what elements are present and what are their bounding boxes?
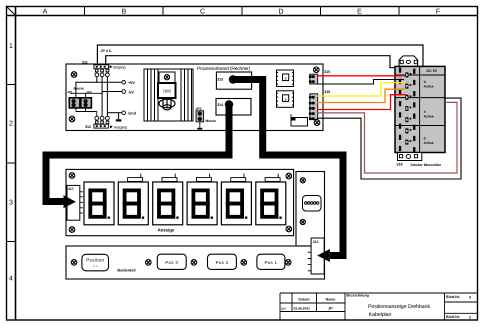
svg-text:Pos 1: Pos 1 [265,260,278,265]
mounting hole top-left [71,72,77,78]
button Pos 2 [208,254,237,269]
svg-text:316: 316 [324,90,330,94]
connector 318 pins column 2 [405,72,411,144]
svg-text:Positionsanzeige Drehbank: Positionsanzeige Drehbank [368,304,430,310]
svg-text:2: 2 [469,315,471,319]
7-segment display DIS6 [256,182,286,225]
wire 311 pin3 to connector 318 body [106,56,395,68]
button Pos 1 [257,254,285,269]
terminal -5V [122,90,126,94]
mounting hole ctrl 3 [191,260,197,266]
7-segment display DIS3 [153,182,183,225]
svg-text:Masse: Masse [74,86,84,90]
svg-text:JP3: JP3 [196,107,202,111]
mounting hole display BL [69,227,75,233]
mounting hole ctrl 1 [71,260,77,266]
svg-text:5: 5 [285,97,287,101]
mounting hole display TL [69,173,75,179]
mounting hole side bottom [300,219,305,224]
connector 318 pins column 3 [413,69,415,153]
connector 318 bottom tab [398,153,422,161]
svg-text:Bezeichnung: Bezeichnung [347,294,369,298]
wire red 315 to 318 [317,75,405,77]
svg-text:318: 318 [397,163,403,167]
svg-text:Achse: Achse [424,141,434,145]
svg-text:Achse: Achse [424,84,434,88]
header 313 (to Bedienteil) [216,72,251,89]
svg-text:Achse: Achse [424,114,434,118]
mounting hole side top [300,178,305,183]
IC U3 [277,91,294,108]
svg-text:4: 4 [9,276,13,283]
mounting hole display TR [286,173,292,179]
connector 312 (Ausgang) [94,116,109,128]
svg-text:3: 3 [9,200,13,207]
svg-text:-5V: -5V [128,90,134,94]
connector 315 [310,74,318,84]
connector 318 body [395,66,445,152]
wire Masse branch to JP1 [76,82,98,98]
wire black 316 loop to 318 right [317,98,461,179]
control board (Bedienteil) outline [66,246,325,279]
svg-text:315: 315 [324,70,330,74]
svg-text:317: 317 [68,187,74,191]
wire 312 pin1 drop [96,112,98,117]
svg-text:Pos 3: Pos 3 [165,260,178,265]
connector 318 pins column 1 [399,68,401,152]
wire black 315 to 318 [317,80,404,85]
mounting hole ctrl 4 [241,260,247,266]
svg-text:^ ^: ^ ^ [93,265,98,269]
mounting hole display BR [286,226,292,232]
ribbon cable 313 to Bedienteil [233,80,343,256]
svg-text:JP2: JP2 [86,90,92,94]
display board (Anzeige) outline [66,169,294,235]
ground symbol [118,113,120,120]
heatsink [144,69,193,121]
jumper bar above DIS6 [265,178,280,182]
wire yellow 316 to 318 [317,83,405,96]
mounting hole top-right [314,67,320,73]
svg-text:Kabelplan: Kabelplan [369,312,392,318]
connector 313 (Bedienteil side) [311,238,324,274]
svg-text:Prozessorboard (Rechner): Prozessorboard (Rechner) [197,66,250,72]
svg-text:JP 4 C.: JP 4 C. [101,49,113,53]
wire Gnd branch [107,112,122,114]
mounting hole bottom-right [314,120,320,126]
svg-text:Masse: Masse [206,119,216,123]
svg-text:gez.: gez. [281,307,287,311]
jumper bar above DIS2 [128,178,143,182]
connector 316 [310,94,318,120]
svg-text:JP1: JP1 [67,90,73,94]
svg-text:Ausgang: Ausgang [114,125,127,129]
wire pin to +5V [97,77,122,83]
svg-text:C: C [200,9,205,16]
svg-text:5: 5 [285,77,287,81]
wire pin through to 312 [106,77,108,117]
svg-text:Datum: Datum [298,297,309,301]
wire JP link bottom [75,108,77,112]
svg-text:5: 5 [469,295,471,299]
svg-text:Pos 2: Pos 2 [216,260,229,265]
button Pos 3 [157,254,186,269]
svg-text:Gnd: Gnd [128,112,136,116]
voltage regulator U1 7805 [159,72,175,83]
jumper bar above DIS5 [231,178,246,182]
wire pin to -5V [102,77,122,92]
processor board outline [66,64,323,131]
mounting hole ctrl 5 [285,260,291,266]
svg-text:1: 1 [9,43,13,50]
svg-text:2: 2 [9,121,13,128]
wire JP link top [70,92,102,94]
svg-text:Position: Position [86,258,104,263]
svg-text:Name: Name [326,297,336,301]
7-segment display DIS2 [118,182,148,225]
svg-text:JP: JP [328,307,333,311]
7-segment display DIS5 [221,182,251,225]
svg-text:312: 312 [85,125,91,129]
7-segment display DIS1 [84,182,114,225]
button Position [82,254,109,270]
svg-text:F: F [436,9,440,16]
connector 318 top tab [399,56,418,67]
svg-text:Stecker Messstäbe: Stecker Messstäbe [411,163,442,167]
7-segment display DIS4 [187,182,217,225]
jumper bar above DIS3 [162,178,177,182]
wire 311 pin1 to connector 318 top [97,45,423,66]
svg-text:7805: 7805 [162,89,172,94]
svg-text:02.06.2001: 02.06.2001 [294,307,311,311]
svg-text:Blatt-Nr.: Blatt-Nr. [446,315,460,319]
header 314 (to Anzeige) [216,99,251,116]
ribbon cable 314 to Anzeige [46,105,229,202]
mounting hole bottom-left [69,116,75,122]
wire orange 316 to 318 [317,89,405,102]
terminal +5V [122,81,126,85]
label Ausgang [110,125,113,128]
svg-text:Eingang: Eingang [113,65,125,69]
svg-text:B: B [122,9,127,16]
terminal Gnd [122,111,126,115]
svg-text:313: 313 [313,240,319,244]
svg-text:311: 311 [82,61,88,65]
svg-text:E: E [357,9,362,16]
jumper bar above DIS4 [196,178,211,182]
svg-text:Anzeige: Anzeige [158,228,175,233]
label Eingang [110,65,113,68]
svg-text:313: 313 [217,77,223,81]
svg-text:D: D [278,9,283,16]
svg-text:+5V: +5V [128,81,135,85]
svg-text:A: A [43,9,48,16]
7805 pins [159,98,175,110]
svg-text:Bedienteil: Bedienteil [117,269,135,273]
svg-text:314: 314 [217,103,223,107]
svg-text:Blatt-Nr.: Blatt-Nr. [446,295,460,299]
mounting hole ctrl 2 [146,260,152,266]
connector 311 (Eingang) [94,65,109,77]
wire red2 316 to 318 [317,95,407,110]
wire brown 316 loop to 318 right [317,102,457,173]
IC U2 [277,70,294,87]
wire 102 through [101,92,103,117]
connector K1 [303,196,322,212]
svg-text:DC 5V: DC 5V [427,69,438,73]
side board outline [296,172,325,247]
connector 317 [67,185,80,220]
